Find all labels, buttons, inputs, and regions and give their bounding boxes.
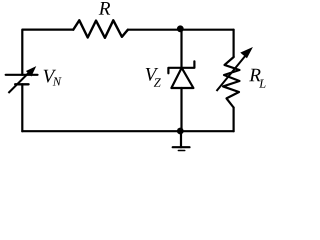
wire top-right horizontal [128,29,234,31]
source VN variable arrow [8,67,35,93]
source VN short plate [15,83,28,85]
zener diode VZ cathode bar [168,61,194,73]
wire right vertical bottom lead [233,108,235,132]
label VZ subscript Z [154,78,161,86]
wire right vertical top lead [233,30,235,57]
label RL subscript L [259,80,265,88]
node junction dot top [177,25,184,32]
wire zener branch top [180,30,182,68]
label VN glyph V [44,70,57,83]
resistor RL variable arrow [217,48,252,91]
wire zener branch bottom [180,88,182,131]
label R [99,2,110,15]
source VN long plate [6,74,38,76]
wire left vertical bottom lead [21,84,23,131]
label VN subscript N [53,77,62,85]
resistor RL (variable) [223,57,240,108]
ground stub wire [180,131,182,147]
node junction dot bottom [177,128,184,135]
resistor R [73,20,128,38]
label RL glyph R [249,69,260,82]
wire bottom horizontal [22,130,233,132]
wire top-left horizontal [22,30,73,75]
ground bar 2 [178,150,184,152]
label VZ glyph V [146,68,159,81]
zener diode VZ triangle [171,68,193,88]
ground bar 1 [173,146,190,148]
